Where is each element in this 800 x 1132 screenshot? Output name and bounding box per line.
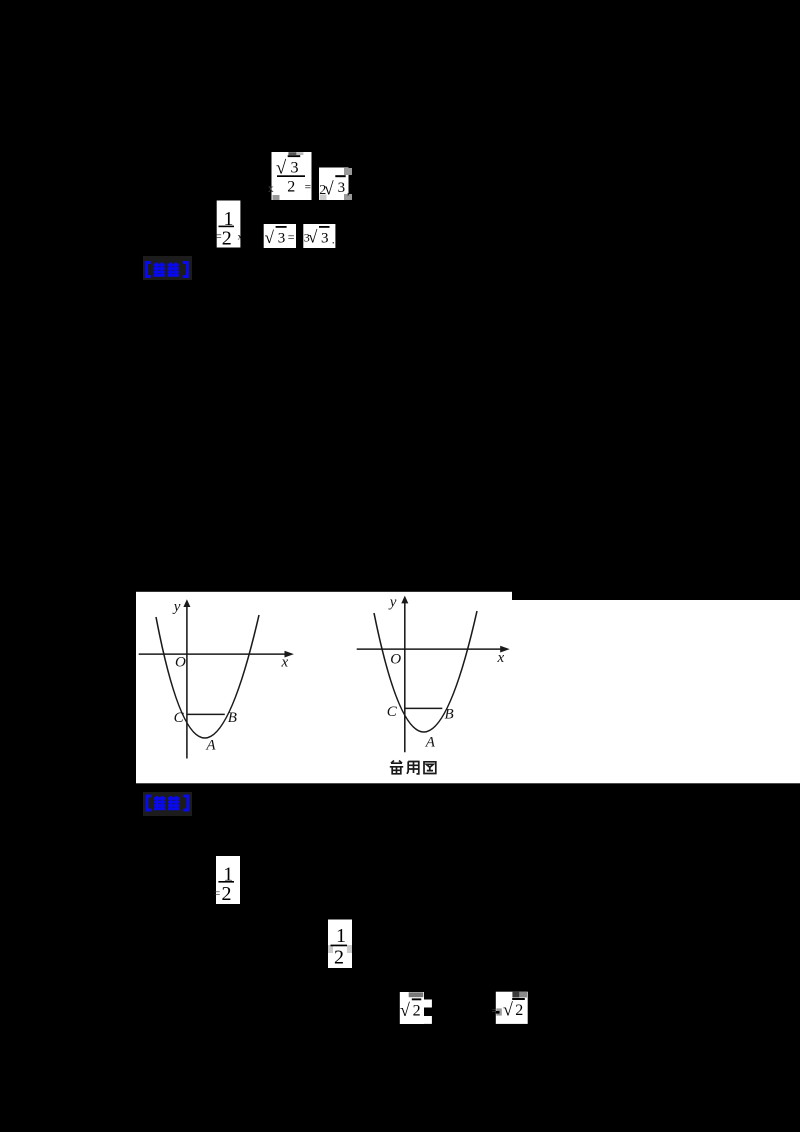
graph2 y arrowhead	[401, 596, 408, 604]
graph1 labels	[172, 599, 289, 754]
svg-text:x: x	[497, 650, 505, 666]
formula image box sqrt(2) (first)	[400, 992, 432, 1024]
graph1 x arrowhead	[285, 651, 294, 658]
answer label 2 (blue CJK)	[147, 796, 188, 810]
svg-text:3: 3	[278, 231, 286, 247]
svg-text:2: 2	[413, 1002, 421, 1019]
svg-text:=: =	[288, 230, 295, 244]
answer label 1 halo	[143, 256, 192, 280]
svg-text:√: √	[265, 228, 275, 247]
graph1 chord CB	[187, 713, 225, 715]
graph1 y-axis	[186, 605, 188, 759]
svg-text:2: 2	[222, 227, 232, 249]
formula image box 1/2 (answer area b)	[328, 920, 352, 969]
svg-text:y: y	[172, 599, 181, 615]
svg-text:1: 1	[336, 925, 346, 947]
formula image box 2*sqrt(3),	[319, 168, 352, 201]
svg-text:x: x	[281, 654, 289, 670]
svg-text:=: =	[215, 231, 222, 243]
formula image box sqrt(3)=	[264, 224, 296, 248]
graph2 labels	[387, 594, 505, 750]
svg-text:A: A	[205, 738, 216, 754]
big white figure band, upper-left step	[136, 592, 512, 602]
graph1 x-axis	[139, 653, 286, 655]
svg-text:3: 3	[321, 230, 329, 246]
answer label 2 halo	[143, 792, 192, 816]
svg-text:2: 2	[334, 947, 344, 969]
svg-text:2: 2	[222, 883, 232, 905]
svg-text:√: √	[503, 1000, 513, 1020]
graph2 x-axis	[357, 648, 502, 650]
svg-text:=: =	[214, 888, 221, 900]
svg-text:3: 3	[338, 180, 346, 196]
formula image box 3*sqrt(3).	[303, 224, 335, 248]
svg-text:C: C	[387, 704, 398, 720]
answer label 1 (blue CJK brackets+glyphs)	[147, 263, 188, 277]
svg-text:,: ,	[347, 183, 350, 198]
formula image box 1/2 (answer area a)	[216, 856, 240, 905]
graph1 y arrowhead	[183, 599, 190, 607]
formula image box sqrt(2) (second)	[496, 992, 528, 1024]
graph2 y-axis	[404, 601, 406, 752]
graph2 parabola	[374, 611, 477, 732]
svg-text:√: √	[400, 1000, 410, 1020]
graph2 chord CB	[405, 707, 443, 709]
svg-text:2: 2	[515, 1002, 523, 1019]
svg-text:2: 2	[287, 179, 295, 196]
graph2 x arrowhead	[500, 646, 510, 653]
svg-text:√: √	[308, 228, 318, 247]
caption "spare figure" CJK glyph approximations	[390, 761, 436, 774]
svg-text:.: .	[332, 233, 335, 247]
svg-text:x: x	[238, 233, 243, 243]
svg-text:O: O	[390, 651, 401, 667]
svg-text:O: O	[175, 655, 186, 671]
svg-text:A: A	[425, 734, 436, 750]
big white figure band	[136, 600, 800, 783]
formula image box sqrt(3)/2	[272, 152, 312, 200]
svg-text:=: =	[305, 181, 312, 193]
svg-text:C: C	[174, 710, 185, 726]
svg-text:y: y	[388, 594, 397, 610]
svg-text:B: B	[445, 706, 454, 722]
graph1 parabola	[156, 615, 259, 738]
formula image box 1/2 (row2)	[217, 201, 243, 250]
svg-text:√: √	[324, 178, 334, 198]
svg-text:3: 3	[291, 159, 299, 176]
svg-text:x: x	[268, 183, 274, 195]
svg-text:B: B	[228, 710, 237, 726]
